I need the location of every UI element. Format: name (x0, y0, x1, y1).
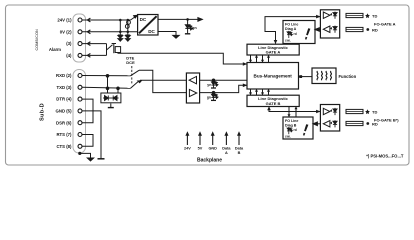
svg-text:DCE: DCE (126, 60, 135, 65)
FO Line Diag B box (283, 117, 313, 139)
svg-text:COMBICON: COMBICON (35, 29, 39, 51)
R2 wire to bus management (200, 85, 247, 92)
receiver triangle A (323, 26, 330, 32)
svg-text:DTR (4): DTR (4) (56, 97, 72, 102)
Function DIP-switch box (312, 68, 336, 84)
wire to Function box (299, 76, 313, 78)
receiver triangle B (323, 121, 330, 127)
svg-text:TXD (3): TXD (3) (56, 85, 72, 90)
Bus-Management box (247, 63, 299, 90)
dot RD B (366, 122, 369, 125)
COMBICON connector bracket (73, 14, 86, 62)
svg-text:RD: RD (372, 27, 378, 32)
svg-text:Diag B: Diag B (285, 123, 297, 127)
FO box B to receiver wire (313, 122, 320, 126)
svg-text:RXD (2): RXD (2) (56, 73, 72, 78)
TVS ground (108, 103, 114, 107)
crossed path lower-to-upper (140, 79, 186, 81)
DC/DC 0V output to chassis ground (158, 32, 179, 39)
5V output wire with arrow (158, 18, 202, 22)
terminal labels Sub-D (56, 73, 73, 149)
stubs Bus to GATE B (249, 89, 270, 96)
lightning (305, 28, 310, 39)
svg-text:CTS (8): CTS (8) (56, 144, 72, 149)
RXD wire (82, 75, 130, 77)
svg-text:RD: RD (372, 121, 378, 126)
svg-text:RTS (7): RTS (7) (56, 132, 72, 137)
status LED ye (211, 79, 218, 88)
Line Diagnostic GATE A box (247, 44, 299, 55)
fiber cable TD B (346, 109, 363, 113)
DC/DC converter box (138, 15, 158, 36)
terminal labels COMBICON (49, 18, 72, 58)
suppressor diode pair 2 (125, 20, 130, 42)
fuse squiggle (127, 20, 131, 24)
svg-text:B: B (238, 151, 241, 155)
RS-232 transceiver box (186, 73, 199, 103)
svg-text:(3): (3) (66, 41, 72, 46)
star TD A (365, 13, 370, 18)
RTS-CTS jumper (82, 135, 93, 147)
DTR-DSR jumper (82, 99, 93, 123)
svg-text:*) PSI-MOS...FO...T: *) PSI-MOS...FO...T (366, 153, 404, 158)
svg-text:0V (2): 0V (2) (60, 29, 72, 34)
FO box A to receiver wire (315, 28, 320, 32)
relay coil box (115, 47, 120, 53)
svg-text:Backplane: Backplane (197, 157, 222, 163)
driver triangle left (189, 76, 196, 83)
GND rail ground bar (98, 158, 105, 160)
svg-text:DSR (6): DSR (6) (56, 120, 72, 125)
svg-text:TD: TD (372, 13, 377, 18)
status LED gn (211, 91, 218, 100)
alarm wire to bus management (118, 53, 247, 65)
svg-text:Sub-D: Sub-D (40, 103, 46, 121)
switch linkage dashed (131, 66, 133, 85)
crossed path upper-to-lower (139, 70, 186, 92)
svg-text:Bus-Management: Bus-Management (254, 74, 293, 79)
svg-text:Data: Data (235, 147, 244, 151)
junction dot LED tap (186, 18, 189, 21)
backplane labels (184, 147, 244, 155)
svg-text:FO Line: FO Line (285, 119, 298, 123)
transmitter triangle A (323, 12, 330, 18)
receive photodiode A (330, 26, 337, 33)
svg-text:gn: gn (192, 26, 197, 30)
wire gate B down to FO transmitter B (269, 107, 320, 112)
0V wire with arrowhead (82, 30, 137, 34)
svg-text:ye: ye (207, 83, 211, 87)
svg-text:Diag A: Diag A (285, 27, 297, 31)
switch arm upper (131, 70, 140, 76)
terminal circles COMBICON (78, 18, 82, 57)
alarm contact row 3 wire (82, 42, 106, 46)
svg-text:GATE A: GATE A (266, 50, 281, 55)
receiver triangle right (189, 89, 196, 96)
fiber cable RD B (346, 121, 363, 125)
svg-text:DC: DC (140, 17, 147, 22)
TVS diode box taps (106, 75, 119, 93)
fiber cable TD A (346, 13, 363, 17)
alarm contact row 4 wire (82, 54, 106, 58)
FO converter box A (320, 10, 339, 38)
svg-text:TD: TD (372, 109, 377, 114)
transmitter triangle B (323, 108, 330, 114)
svg-text:LWL: LWL (285, 39, 291, 43)
star TD B (365, 109, 370, 114)
svg-text:FO-GATE B*): FO-GATE B*) (374, 117, 399, 122)
svg-text:24V: 24V (184, 147, 191, 151)
stubs GATE B to FO box B (288, 106, 298, 117)
shield wire to chassis ground (79, 152, 94, 161)
relay armature bar (112, 44, 116, 54)
svg-text:GND (5): GND (5) (56, 109, 73, 114)
receive photodiode B (330, 120, 337, 127)
svg-text:24V (1): 24V (1) (57, 18, 72, 23)
alarm contact bracket (106, 44, 108, 56)
transmit LED B (330, 108, 337, 115)
switch arm lower with arrow (131, 80, 143, 88)
FO converter box B (320, 105, 339, 132)
border frame (6, 5, 410, 165)
svg-text:rd: rd (294, 128, 297, 132)
transmit LED A (330, 12, 337, 19)
svg-text:FO Line: FO Line (285, 22, 298, 26)
svg-text:Data: Data (222, 147, 231, 151)
Sub-D connector bracket (73, 70, 86, 154)
terminal circles Sub-D (78, 74, 82, 149)
TVS diode box (101, 93, 121, 103)
FO Line Diag A box (283, 21, 315, 44)
junction square to Function box (299, 75, 302, 78)
svg-text:5V: 5V (198, 147, 203, 151)
svg-text:GATE B: GATE B (266, 101, 281, 106)
R1 wire to bus management (200, 79, 247, 81)
svg-text:rd: rd (294, 32, 297, 36)
svg-text:LWL: LWL (285, 135, 291, 139)
relay contact arm (107, 45, 113, 50)
svg-text:Alarm: Alarm (49, 47, 61, 52)
svg-text:Function: Function (339, 74, 357, 79)
svg-text:DC: DC (148, 29, 155, 34)
24V wire with arrowhead (82, 18, 130, 22)
junction dots on supply rails (119, 19, 129, 33)
svg-text:GND: GND (208, 147, 217, 151)
svg-text:gn: gn (207, 95, 211, 99)
Line Diagnostic GATE B box (247, 95, 299, 106)
dot RD A (366, 28, 369, 31)
backplane arrows (185, 131, 241, 145)
arrow into DC/DC (131, 15, 138, 20)
svg-text:(4): (4) (66, 53, 72, 58)
svg-text:FO-GATE A: FO-GATE A (374, 21, 396, 26)
TXD wire (82, 87, 130, 88)
fiber cable RD A (346, 27, 363, 31)
suppressor diode pair 1 (118, 20, 123, 42)
power LED gn (185, 19, 193, 33)
svg-text:A: A (225, 151, 228, 155)
GND wire down (82, 111, 101, 159)
wire gate A up to FO transmitter A (265, 17, 320, 44)
stubs GATE A to Bus (249, 55, 270, 63)
